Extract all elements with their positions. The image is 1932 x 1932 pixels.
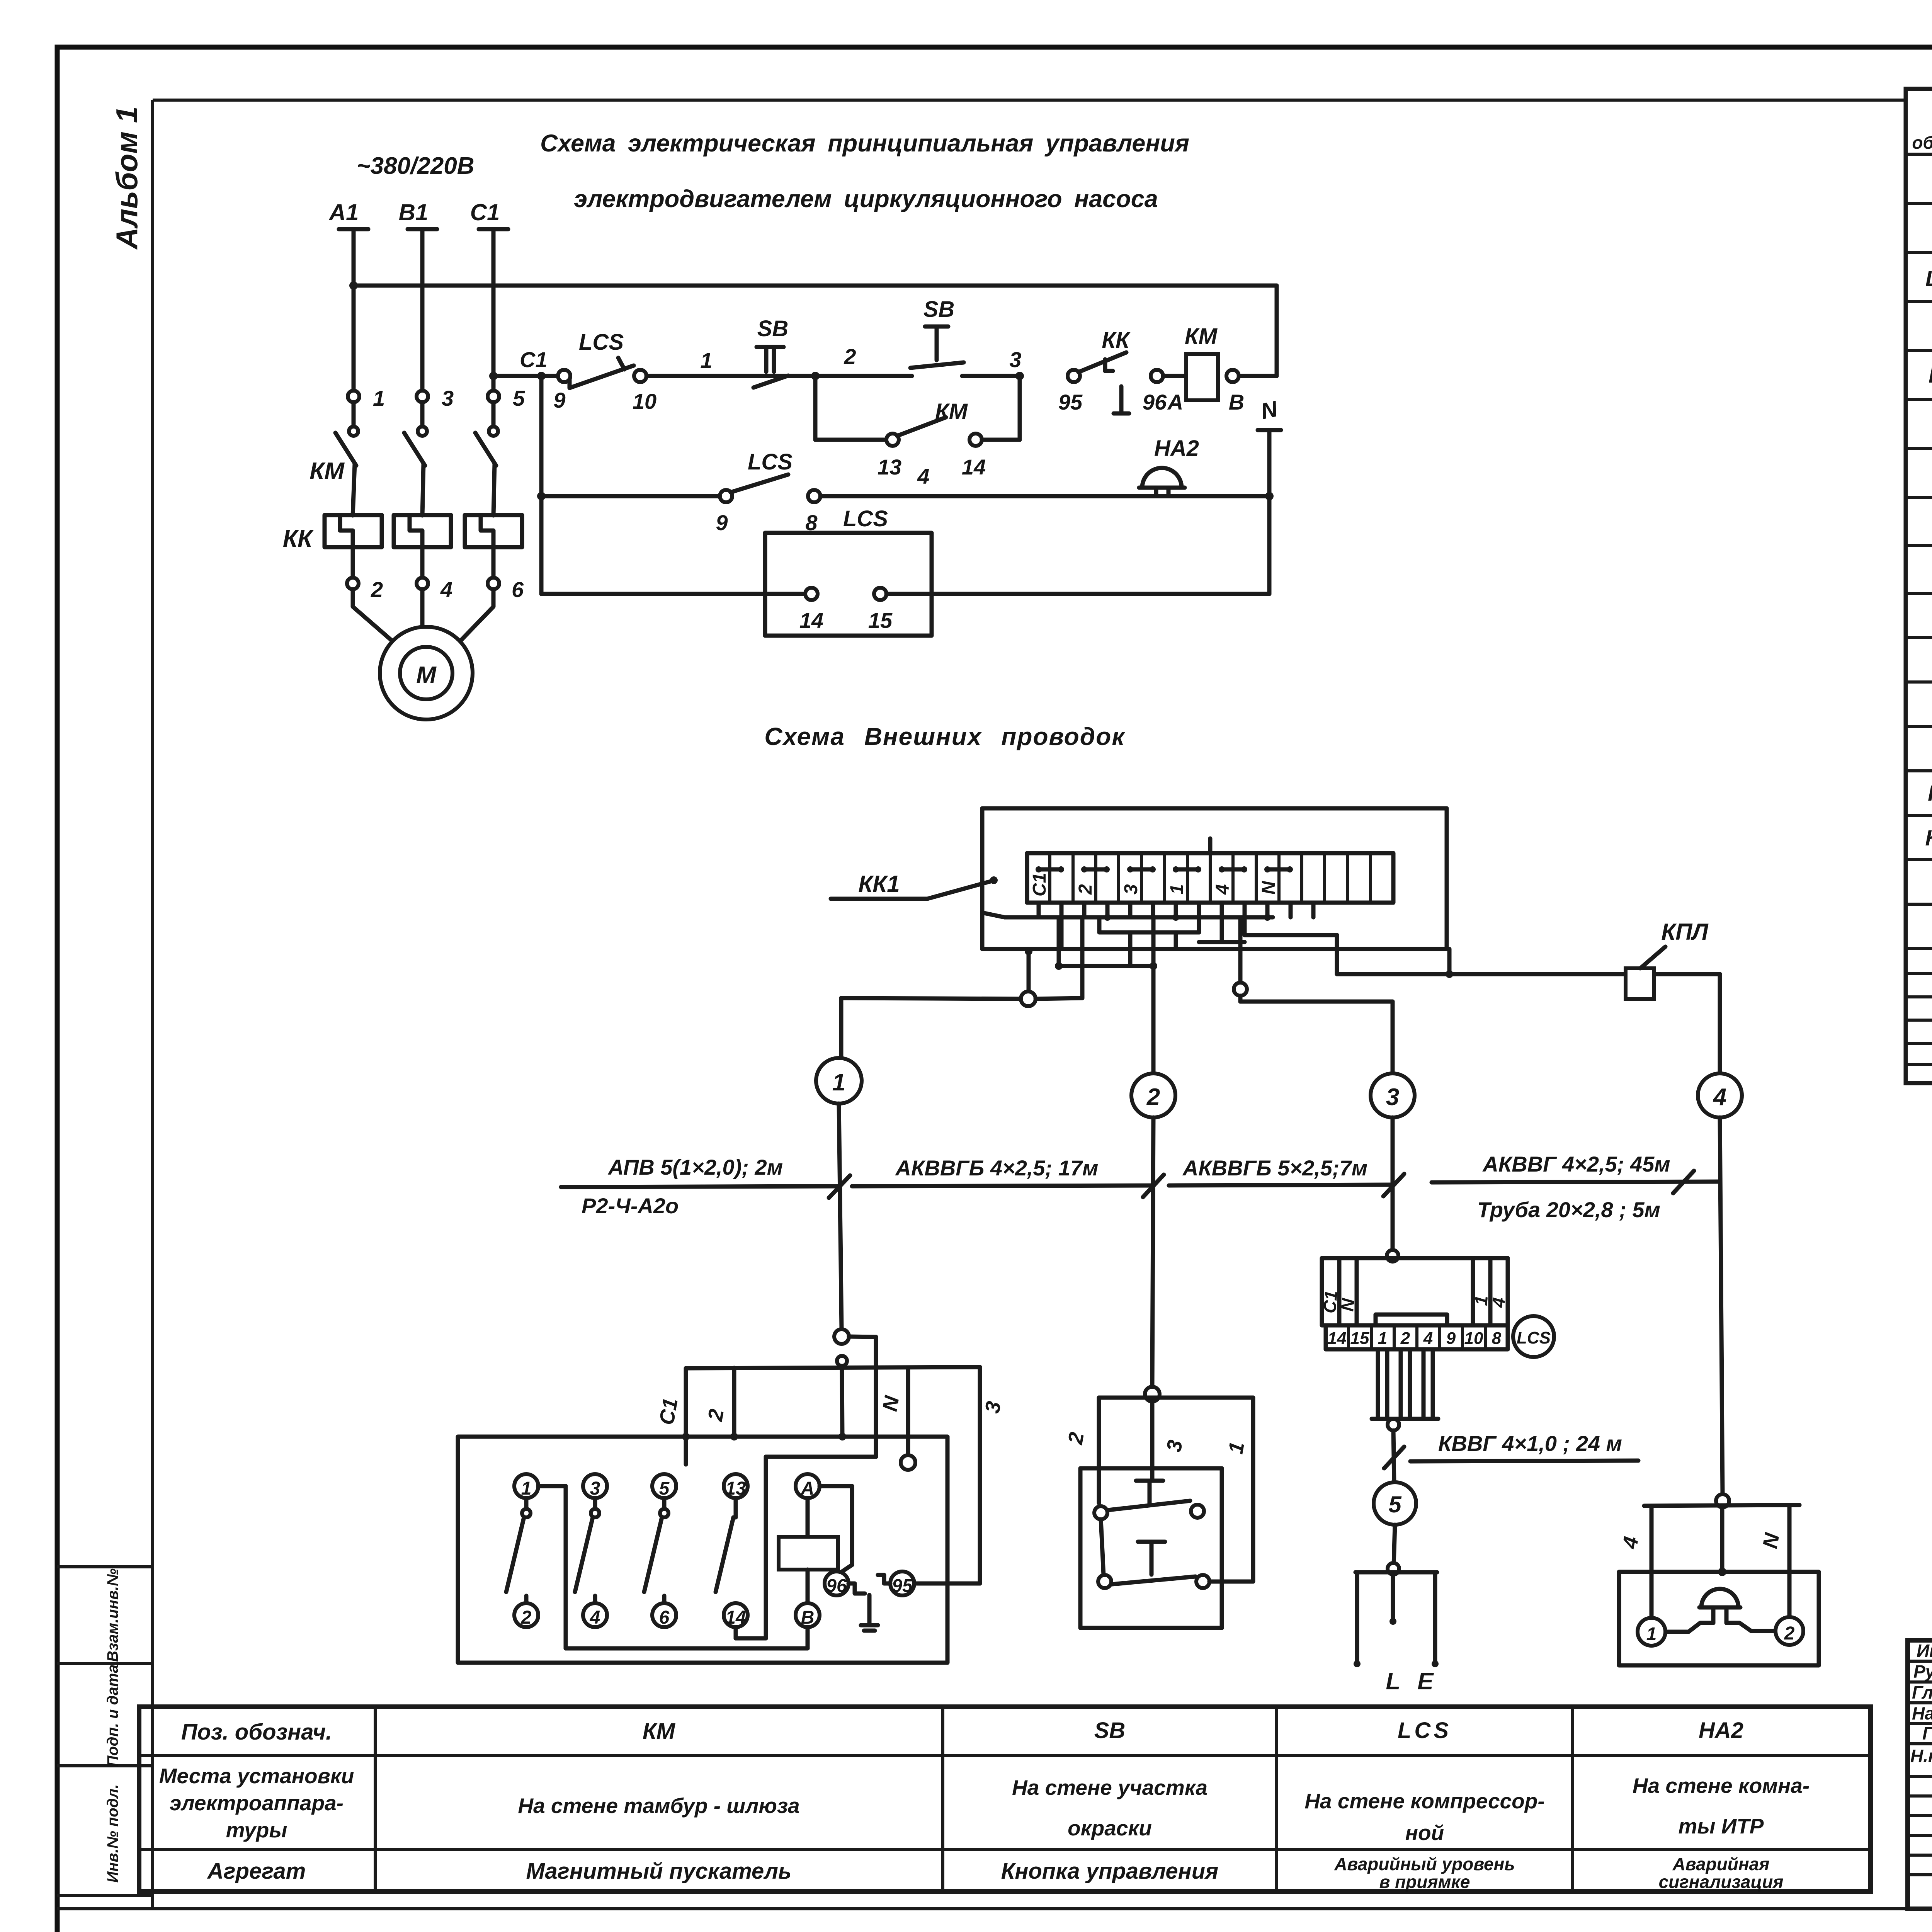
left margin ticks [57,1567,153,1895]
svg-text:N: N [1337,1297,1358,1312]
svg-text:электродвигателем циркуляцион: электродвигателем циркуляционного насоса [574,185,1158,213]
starter box KM [458,1433,947,1663]
svg-text:Кнопка управления: Кнопка управления [1001,1859,1219,1884]
svg-text:2: 2 [1400,1329,1410,1348]
svg-text:9: 9 [1446,1329,1456,1348]
svg-text:10: 10 [1464,1329,1483,1348]
svg-text:АПВ 5(1×2,0); 2м: АПВ 5(1×2,0); 2м [607,1155,783,1179]
bus below KK1 [1025,947,1157,992]
svg-text:15: 15 [1350,1329,1369,1348]
svg-text:Рук.гр.: Рук.гр. [1913,1662,1932,1682]
svg-text:14: 14 [962,455,986,479]
wire phase B1 vertical [420,229,425,427]
svg-text:КМ: КМ [643,1719,676,1744]
KM box contact 1-2 [506,1474,538,1628]
KM box thermal contact 96-95 [825,1571,980,1631]
location table row 3 [207,1854,1784,1892]
wire 1 [646,348,753,376]
svg-text:А1: А1 [328,199,359,225]
svg-text:L E: L E [1386,1668,1439,1695]
svg-text:С1: С1 [520,347,548,372]
svg-text:13: 13 [725,1478,746,1499]
svg-text:Гл.спец: Гл.спец [1912,1682,1932,1702]
cable node 2 [1131,1073,1175,1117]
svg-text:15: 15 [868,608,893,633]
svg-text:Аварийный уровень: Аварийный уровень [1334,1854,1515,1874]
svg-text:НА2: НА2 [1154,436,1199,461]
wire phase C1 vertical [492,229,496,427]
svg-text:95: 95 [1058,390,1083,414]
pushbutton box SB [1080,1468,1253,1628]
svg-text:В: В [1229,390,1244,414]
svg-text:SВ: SВ [923,297,955,322]
svg-text:5: 5 [513,386,525,410]
svg-text:С1: С1 [470,199,500,225]
svg-text:14: 14 [725,1607,746,1628]
svg-text:3: 3 [1009,347,1021,372]
KK1 jumper links on strip top [1036,838,1293,872]
earth electrode LE [1354,1525,1439,1695]
svg-text:95: 95 [892,1576,913,1596]
wire to circle 1 [841,992,1082,1058]
svg-text:14: 14 [799,608,823,633]
wire phase A1 vertical [352,229,356,427]
svg-text:АКВВГБ 5×2,5;7м: АКВВГБ 5×2,5;7м [1182,1156,1367,1180]
svg-text:4: 4 [917,464,929,488]
wire to KPL and circle 4 [1337,970,1720,1073]
svg-text:АКВВГ 4×2,5; 45м: АКВВГ 4×2,5; 45м [1482,1152,1670,1176]
svg-text:КМ: КМ [310,458,345,485]
svg-text:На стене компрессор-: На стене компрессор- [1304,1789,1544,1813]
svg-text:Схема электрическая принципи: Схема электрическая принципиальная управ… [540,130,1189,157]
svg-text:2: 2 [371,577,383,602]
svg-text:В: В [801,1607,815,1628]
svg-text:Подп. и дата: Подп. и дата [104,1665,121,1767]
svg-text:10: 10 [633,389,656,413]
KM box internal links [538,1457,876,1648]
location table row 2 [159,1764,1810,1845]
svg-text:9: 9 [553,388,565,412]
pushbutton SB start (NO) [815,297,1020,376]
terminal box KK1 outline [982,808,1447,949]
svg-text:Н.контр: Н.контр [1910,1746,1932,1766]
svg-text:LCS: LCS [579,330,624,355]
alarm row wire [537,376,720,594]
KM box contact 5-6 [644,1437,686,1628]
svg-text:ГИП: ГИП [1922,1723,1932,1743]
bell HA2 [1139,436,1274,500]
node 3 [1009,347,1024,380]
svg-text:LCS: LCS [1925,266,1932,291]
svg-text:96: 96 [826,1576,847,1596]
svg-text:4: 4 [590,1607,600,1628]
svg-text:На стене тамбур - шлюза: На стене тамбур - шлюза [518,1794,799,1818]
node C1 control tap [489,347,558,380]
svg-text:окраски: окраски [1068,1816,1152,1840]
svg-text:1: 1 [700,348,712,372]
svg-text:Альбом 1: Альбом 1 [110,106,144,250]
cable node 1 [816,1058,862,1104]
svg-text:4: 4 [440,577,452,602]
svg-text:2: 2 [844,344,856,369]
svg-text:3: 3 [1121,884,1141,895]
svg-text:Поз. обознач.: Поз. обознач. [181,1719,332,1745]
svg-text:~380/220В: ~380/220В [356,153,474,179]
LCS drop to node 5 [1372,1349,1438,1482]
svg-text:КПЛ: КПЛ [1925,826,1932,850]
branch KM aux 13-14 [815,376,1020,479]
location table grid [139,1707,1871,1891]
svg-text:Магнитный пускатель: Магнитный пускатель [526,1859,792,1884]
LCS terminal strip 14 15 1 2 4 9 10 8 [1326,1316,1554,1357]
svg-text:Р2-Ч-А2о: Р2-Ч-А2о [582,1194,679,1218]
motor M1 [380,627,473,719]
svg-text:4: 4 [1488,1297,1509,1309]
svg-text:4: 4 [1713,1084,1726,1111]
cable node 3 [1371,1073,1415,1117]
svg-text:LCS: LCS [1517,1328,1551,1347]
svg-text:1: 1 [521,1478,532,1499]
svg-text:НА2: НА2 [1699,1718,1743,1743]
svg-text:Аварийная: Аварийная [1672,1854,1770,1874]
wire to circle 3 [1234,983,1393,1073]
svg-text:КК1: КК1 [858,871,900,897]
svg-text:SВ: SВ [757,316,789,341]
neutral N line [1258,396,1281,594]
cable label KVVG [1384,1431,1638,1468]
control bus from A1 [349,281,1277,290]
svg-text:КК1: КК1 [1928,781,1932,806]
svg-text:1: 1 [373,386,385,410]
svg-text:обознач.: обознач. [1912,133,1932,153]
svg-text:КК: КК [1102,328,1131,353]
KM box coil A-B [779,1474,838,1628]
svg-text:9: 9 [716,510,728,535]
svg-text:1: 1 [832,1069,845,1096]
svg-text:На стене комна-: На стене комна- [1633,1774,1810,1798]
label KK1 with leader [831,871,998,899]
svg-text:М: М [416,662,437,689]
contactor coil KM [1185,286,1277,414]
svg-text:3: 3 [590,1478,600,1499]
svg-text:3: 3 [442,386,454,410]
svg-text:1: 1 [1167,884,1187,895]
svg-text:N: N [1259,881,1279,895]
svg-text:LCS: LCS [843,506,888,531]
parts list table grid [1906,89,1932,1083]
svg-text:Труба 20×2,8 ; 5м: Труба 20×2,8 ; 5м [1477,1197,1660,1222]
svg-text:LCS: LCS [1398,1718,1452,1743]
svg-text:Агрегат: Агрегат [207,1859,306,1884]
svg-text:Инв.№ подл.: Инв.№ подл. [104,1784,121,1883]
svg-text:НА2: НА2 [1929,363,1932,388]
svg-text:2: 2 [1075,884,1096,895]
drop from node 1 [839,1104,842,1329]
svg-text:2: 2 [1784,1623,1795,1644]
drop from node 2 [1152,1117,1153,1387]
svg-text:Инж.: Инж. [1917,1641,1932,1661]
svg-text:ты ИТР: ты ИТР [1679,1814,1764,1838]
svg-text:3: 3 [1386,1084,1399,1111]
svg-text:В1: В1 [399,199,429,225]
svg-text:Взам.инв.№: Взам.инв.№ [104,1568,121,1662]
thermal relay KK heaters [283,515,522,552]
pushbutton SB stop (NC) [753,316,815,388]
svg-text:туры: туры [226,1818,287,1842]
svg-text:в приямке: в приямке [1379,1872,1470,1892]
level sensor assembly LCS [1319,1250,1509,1325]
svg-text:2: 2 [1146,1084,1160,1111]
contactor KM main contacts [310,386,525,515]
svg-text:А: А [1167,390,1183,414]
drop from node 3 [1391,1117,1395,1250]
phase terminal B1 [399,199,437,229]
contact LCS 9-8 (NO) [716,449,820,535]
wire 4 [820,464,1142,496]
svg-text:С1: С1 [655,1396,682,1427]
svg-text:2: 2 [521,1607,532,1628]
svg-text:Схема Внешних проводок: Схема Внешних проводок [764,723,1126,750]
KK1 terminal strip [1027,853,1393,903]
cable label 2 [852,1156,1164,1197]
svg-text:ной: ной [1405,1821,1444,1845]
svg-text:КК: КК [283,526,314,552]
svg-text:SВ: SВ [1094,1718,1126,1743]
cable label 4 [1432,1152,1719,1222]
svg-text:6: 6 [659,1607,670,1628]
svg-text:КПЛ: КПЛ [1661,919,1709,945]
junction above KM box [834,1329,876,1457]
KM box contact 3-4 [575,1474,607,1628]
phase terminal A1 [328,199,368,229]
float switch block LCS 14-15 [541,506,1269,636]
cable node 4 [1698,1073,1742,1117]
parts table header [1912,104,1932,153]
svg-text:На стене участка: На стене участка [1012,1776,1207,1799]
svg-text:96: 96 [1143,390,1167,414]
phase terminal C1 [470,199,508,229]
svg-text:13: 13 [878,455,901,479]
svg-text:Нач.отд: Нач.отд [1912,1703,1932,1723]
svg-text:5: 5 [659,1478,670,1499]
bell box HA2 [1619,1572,1819,1665]
svg-text:6: 6 [512,577,524,602]
svg-text:4: 4 [1213,884,1233,895]
svg-text:С1: С1 [1029,873,1050,896]
svg-text:14: 14 [1328,1329,1347,1348]
svg-text:КМ: КМ [1185,324,1218,349]
svg-text:АКВВГБ 4×2,5; 17м: АКВВГБ 4×2,5; 17м [895,1156,1099,1180]
parts rows text [1925,168,1932,896]
svg-text:1: 1 [1378,1329,1387,1348]
svg-text:электроаппара-: электроаппара- [170,1791,344,1815]
node 2 [811,344,856,380]
svg-text:8: 8 [1492,1329,1502,1348]
KM box contact 13-14 [716,1474,748,1628]
title block signature rows [1910,1641,1932,1766]
svg-text:1: 1 [1646,1624,1657,1645]
feeder bus above KM box [655,1367,1005,1583]
drop from node 4 [1720,1117,1723,1495]
svg-text:сигнализация: сигнализация [1659,1872,1784,1892]
pushbutton box SB feeder [1064,1387,1253,1582]
title block grid [1908,1640,1932,1909]
cable label 1 [561,1155,850,1218]
svg-text:КВВГ 4×1,0 ; 24 м: КВВГ 4×1,0 ; 24 м [1438,1431,1622,1456]
cable node 5 [1374,1482,1416,1525]
svg-text:5: 5 [1388,1492,1402,1517]
location table header row [181,1718,1743,1745]
thermal contact KK 95-96 [1058,328,1186,414]
motor feeder lower terminals 2 4 6 [347,547,524,640]
svg-text:Места установки: Места установки [159,1764,354,1788]
bell box HA2 feeder [1618,1494,1799,1620]
junction box KPL [1626,919,1709,999]
contact LCS 9-10 (NC) [553,330,656,413]
cable label 3 [1169,1156,1404,1196]
svg-text:А: А [801,1478,815,1499]
svg-text:4: 4 [1423,1329,1433,1348]
svg-text:LCS: LCS [748,449,793,474]
KK1 internal wiring [982,903,1449,1073]
